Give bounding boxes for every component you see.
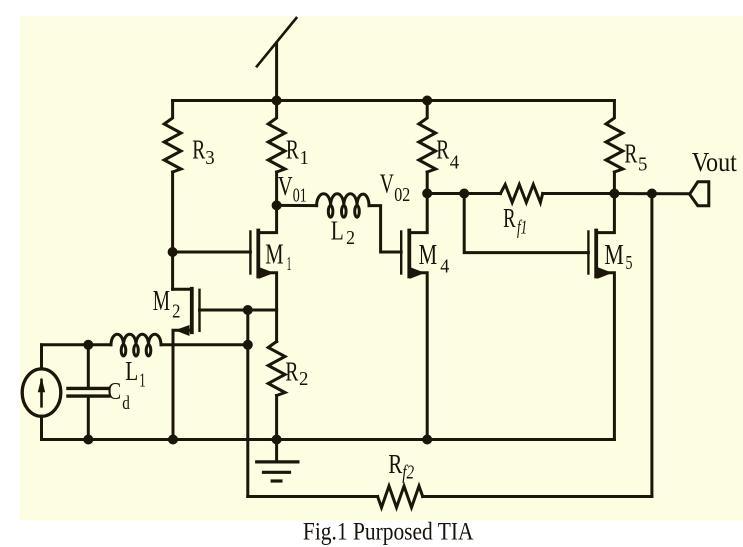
- wire R2 bottom lead: [275, 396, 278, 440]
- wire Rf2 left vertical to input node: [246, 310, 249, 497]
- transistor M4 gate bar: [400, 232, 402, 274]
- output terminal: [690, 182, 709, 206]
- svg-text:4: 4: [440, 255, 449, 277]
- capacitor Cd plate 2: [68, 394, 109, 397]
- wire R1 bottom to node V01: [275, 172, 278, 205]
- junction dot top rail R4: [422, 96, 432, 106]
- svg-text:d: d: [122, 393, 130, 414]
- inductor L1 humps: [111, 334, 161, 345]
- wire M5 source lead: [596, 273, 614, 440]
- transistor M1 channel bar: [256, 231, 260, 277]
- wire M2 source lead: [173, 330, 192, 439]
- junction dot M1 gate node: [168, 247, 178, 257]
- ground lead: [275, 440, 278, 461]
- wire M4 drain lead: [409, 193, 427, 232]
- svg-text:R: R: [436, 135, 449, 165]
- capacitor Cd bottom lead: [87, 398, 90, 440]
- transistor M4 channel bar: [407, 231, 411, 277]
- svg-text:R: R: [285, 357, 298, 387]
- svg-text:M: M: [153, 286, 170, 317]
- svg-text:M: M: [419, 240, 438, 271]
- capacitor Cd top lead: [87, 345, 90, 387]
- transistor M2 gate bar: [198, 290, 200, 331]
- wire M2 drain lead: [173, 288, 192, 291]
- svg-text:f2: f2: [402, 462, 414, 484]
- resistor R3: [164, 101, 181, 173]
- wire M4 source lead: [409, 273, 427, 440]
- svg-text:2: 2: [172, 300, 180, 322]
- junction dot M5-gate branch: [459, 189, 469, 199]
- inductor L2 humps: [317, 194, 369, 206]
- junction dot rail M2 source: [168, 435, 178, 445]
- current source circle: [22, 369, 61, 416]
- current source arrow stem: [40, 380, 43, 406]
- junction dot input node: [243, 340, 253, 350]
- inductor L2 loops: [328, 206, 333, 218]
- resistor Rf1: [501, 185, 543, 203]
- ground bar 2: [264, 471, 290, 474]
- junction node V01: [272, 200, 282, 210]
- svg-text:2: 2: [346, 228, 355, 249]
- junction dot rail M4 source: [422, 435, 432, 445]
- transistor M2 channel bar: [190, 289, 194, 332]
- wire M1 gate lead: [173, 251, 251, 254]
- transistor M1 gate bar: [249, 232, 251, 274]
- svg-text:5: 5: [626, 252, 633, 274]
- wire R5 bottom to output node: [613, 172, 616, 194]
- transistor M5 channel bar: [594, 231, 598, 277]
- wire M2 gate lead: [200, 309, 277, 312]
- wire M5 gate lead: [464, 194, 588, 253]
- svg-text:M: M: [265, 240, 283, 271]
- VDD supply stub: [275, 43, 278, 101]
- svg-text:C: C: [108, 379, 122, 405]
- svg-text:4: 4: [450, 152, 460, 173]
- transistor M4 source arrow: [410, 267, 425, 279]
- current source arrow head: [38, 377, 45, 392]
- svg-text:3: 3: [205, 148, 214, 169]
- resistor R5: [606, 101, 623, 173]
- wire Rf1 to output node: [543, 192, 615, 195]
- svg-text:R: R: [503, 203, 515, 233]
- wire V02 row to Rf1: [427, 192, 500, 195]
- VDD slash: [257, 18, 296, 66]
- transistor M5 source arrow: [597, 267, 612, 279]
- svg-text:2: 2: [299, 369, 308, 390]
- wire Rf2 bottom left: [248, 495, 378, 498]
- junction dot Cd top: [83, 340, 93, 350]
- wire M4 gate lead from L2: [369, 206, 401, 252]
- junction dot rail Cd: [83, 435, 93, 445]
- svg-text:Vout: Vout: [692, 147, 738, 177]
- junction dot top rail R1: [272, 96, 282, 106]
- transistor M5 gate bar: [587, 232, 589, 274]
- svg-text:5: 5: [638, 154, 647, 175]
- ground bar 1: [257, 460, 298, 463]
- svg-text:1: 1: [287, 253, 292, 275]
- wire input row: [42, 343, 112, 346]
- svg-text:R: R: [624, 138, 637, 168]
- svg-text:L: L: [331, 215, 344, 245]
- capacitor Cd plate 1: [68, 387, 109, 390]
- wire Rf2 bottom right: [423, 495, 652, 498]
- current source stem top: [40, 345, 43, 369]
- wire M5 drain lead: [596, 194, 614, 233]
- resistor R2: [268, 342, 285, 396]
- svg-text:02: 02: [394, 185, 410, 206]
- svg-text:Fig.1 Purposed TIA: Fig.1 Purposed TIA: [303, 517, 474, 546]
- wire M1 drain lead: [258, 205, 276, 232]
- current source stem bottom: [40, 416, 43, 439]
- junction dot M2 gate branch: [243, 305, 253, 315]
- transistor M2 source arrow: [175, 325, 190, 336]
- wire bottom rail: [42, 438, 615, 441]
- svg-text:R: R: [286, 134, 299, 164]
- wire Rf2 right vertical: [650, 194, 653, 497]
- svg-text:f1: f1: [517, 217, 527, 239]
- wire output node to terminal: [614, 192, 689, 195]
- resistor R4: [419, 101, 436, 173]
- transistor M1 source arrow: [259, 267, 274, 279]
- svg-text:1: 1: [139, 371, 145, 392]
- inductor L1 loops: [121, 345, 126, 356]
- wire V01 to L2: [277, 204, 317, 207]
- svg-text:1: 1: [300, 148, 309, 169]
- svg-text:V: V: [278, 171, 293, 201]
- resistor Rf2: [378, 486, 423, 508]
- junction dot Rf2 branch: [647, 189, 657, 199]
- wire L1 to input node: [161, 343, 248, 346]
- svg-text:R: R: [388, 449, 402, 479]
- svg-text:V: V: [380, 169, 394, 199]
- junction node V02: [422, 188, 432, 198]
- ground bar 3: [272, 479, 281, 482]
- junction dot output node: [609, 189, 619, 199]
- svg-text:01: 01: [293, 185, 307, 206]
- wire M1 source lead: [258, 273, 276, 342]
- svg-text:L: L: [125, 356, 138, 386]
- resistor R1: [268, 101, 285, 173]
- svg-text:R: R: [192, 134, 205, 164]
- junction dot rail R2: [272, 435, 282, 445]
- wire R4 bottom to node V02: [426, 172, 429, 193]
- wire top rail: [173, 99, 615, 102]
- svg-text:M: M: [604, 240, 624, 271]
- wire R3 bottom to M2 drain: [171, 172, 174, 289]
